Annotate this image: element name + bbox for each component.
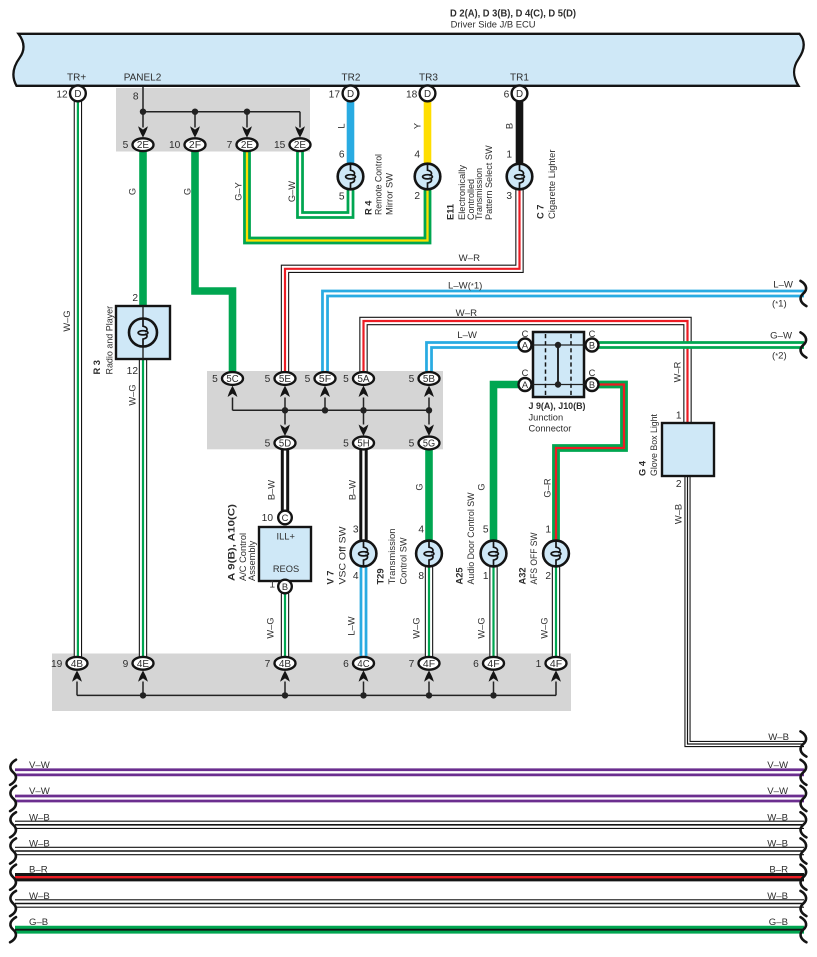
svg-text:B: B (282, 582, 288, 592)
svg-text:3: 3 (353, 525, 359, 536)
PANEL2 distribution (142, 87, 144, 112)
svg-text:C: C (589, 329, 596, 339)
svg-text:W–G: W–G (62, 310, 72, 331)
svg-text:12: 12 (127, 366, 139, 377)
svg-text:2: 2 (545, 571, 551, 582)
svg-text:G: G (128, 188, 138, 195)
wire W-G A25 pin1 to 4F (489, 566, 497, 657)
svg-text:G: G (183, 188, 193, 195)
svg-text:W–G: W–G (412, 617, 422, 638)
bulb A32 AFS off SW (543, 541, 569, 567)
svg-text:5: 5 (123, 140, 129, 151)
pin AC pin B (278, 580, 292, 594)
wire W-G A32 pin2 to 4F (552, 566, 560, 657)
wire W-B glove box to right edge (688, 476, 805, 744)
svg-text:1: 1 (483, 571, 489, 582)
bulb inside R3 (129, 319, 157, 347)
connector 5B (419, 372, 440, 385)
svg-text:Transmission: Transmission (387, 529, 397, 585)
svg-text:(*1): (*1) (772, 299, 787, 310)
svg-text:Audio Door Control SW: Audio Door Control SW (466, 492, 476, 584)
svg-text:C: C (589, 368, 596, 378)
radio R3 box (116, 306, 170, 359)
wire G junction A to A25 pin5 (494, 385, 519, 542)
pin junction B top (586, 339, 599, 352)
bottom block distribution (77, 694, 556, 696)
svg-text:W–B: W–B (767, 891, 788, 902)
svg-text:W–B: W–B (674, 504, 684, 524)
svg-text:5B: 5B (423, 374, 436, 385)
connector 4E-9 (133, 657, 154, 670)
wire bus W–B 6 (15, 899, 804, 907)
svg-text:1: 1 (269, 580, 275, 591)
svg-text:4F: 4F (487, 659, 499, 670)
svg-text:5H: 5H (357, 439, 369, 450)
wire G-R junction B to A32 pin1 (556, 385, 624, 542)
svg-text:G: G (477, 483, 487, 490)
wire G-W junction B to right edge (598, 341, 804, 349)
wire bus W–B 3 (15, 821, 804, 829)
junction connector J9 J10 (533, 332, 584, 397)
connector 4B-19 (67, 657, 88, 670)
wire bus G–B 7 (15, 926, 804, 934)
svg-text:D: D (74, 89, 81, 100)
svg-text:Y: Y (413, 123, 423, 129)
svg-text:W–B: W–B (768, 732, 789, 743)
svg-text:G–Y: G–Y (233, 182, 243, 201)
svg-text:W–B: W–B (767, 812, 788, 823)
svg-text:4: 4 (418, 525, 424, 536)
svg-text:5: 5 (305, 374, 311, 385)
svg-text:Junction: Junction (529, 413, 564, 423)
svg-text:G–B: G–B (29, 917, 48, 928)
svg-text:5G: 5G (423, 439, 435, 450)
svg-text:2: 2 (676, 479, 682, 490)
svg-text:8: 8 (133, 92, 139, 103)
connector 2E-5 (133, 138, 154, 151)
svg-text:7: 7 (227, 140, 233, 151)
svg-text:B: B (589, 341, 595, 351)
connector 5D (275, 437, 296, 450)
svg-text:A32: A32 (518, 567, 528, 584)
svg-text:B–R: B–R (29, 865, 48, 876)
svg-text:V–W: V–W (29, 760, 51, 771)
bulb T29 transmission control SW (416, 541, 442, 567)
wire L-W V7 pin4 to 4C (360, 566, 368, 657)
svg-text:TR1: TR1 (510, 73, 529, 84)
svg-text:10: 10 (169, 140, 181, 151)
wire W-G R3 pin12 to 4E (139, 359, 147, 657)
pin ECU pin D (512, 86, 528, 102)
svg-text:C 7: C 7 (536, 205, 546, 219)
svg-text:5: 5 (409, 374, 415, 385)
svg-text:Assembly: Assembly (247, 540, 257, 581)
middle block distribution (233, 409, 430, 411)
svg-text:6: 6 (343, 659, 349, 670)
svg-text:W–G: W–G (540, 617, 550, 638)
svg-text:5: 5 (343, 439, 349, 450)
svg-text:1: 1 (506, 149, 512, 160)
svg-text:Control SW: Control SW (399, 537, 409, 584)
svg-text:Mirror SW: Mirror SW (385, 173, 395, 215)
svg-text:W–G: W–G (477, 617, 487, 638)
svg-text:TR2: TR2 (342, 73, 361, 84)
svg-text:5: 5 (483, 525, 489, 536)
svg-text:Radio and Player: Radio and Player (105, 306, 115, 375)
connector 5A (353, 372, 374, 385)
svg-text:4F: 4F (550, 659, 562, 670)
svg-text:V–W: V–W (767, 786, 789, 797)
svg-text:W–B: W–B (29, 812, 50, 823)
svg-text:AFS OFF SW: AFS OFF SW (529, 532, 539, 584)
svg-text:T29: T29 (376, 568, 386, 584)
svg-text:18: 18 (406, 89, 418, 100)
connector 4F-1 (546, 657, 567, 670)
svg-text:19: 19 (51, 659, 63, 670)
wire bus V–W 1 (15, 768, 804, 776)
svg-text:G: G (415, 483, 425, 490)
svg-text:D: D (424, 89, 431, 100)
svg-text:17: 17 (329, 89, 341, 100)
connector 2E-7 (237, 138, 258, 151)
wire L-W 5B to junction A (429, 345, 519, 372)
svg-text:A: A (522, 380, 529, 390)
connector 5H (353, 437, 374, 450)
svg-text:A 9(B), A10(C): A 9(B), A10(C) (227, 504, 237, 581)
svg-text:W–R: W–R (459, 253, 480, 264)
svg-text:5: 5 (265, 439, 271, 450)
wire W-R C7 pin3 to 5E (285, 189, 520, 372)
wire B TR1 to C7 pin1 (516, 101, 524, 165)
svg-text:G–B: G–B (769, 917, 788, 928)
svg-text:B–W: B–W (348, 480, 358, 500)
wire B-W 5D to AC pin10 (281, 450, 289, 511)
svg-text:L–W(*1): L–W(*1) (448, 281, 482, 292)
wire G 2E5 to R3 pin2 (139, 152, 147, 307)
svg-text:1: 1 (676, 411, 682, 422)
svg-text:1: 1 (545, 525, 551, 536)
svg-text:Remote Control: Remote Control (374, 154, 384, 215)
bottom ground block (52, 654, 571, 712)
svg-text:W–R: W–R (673, 361, 683, 382)
wire W-G TR+ to 4B (74, 101, 82, 657)
wire W-G AC pin1 to 4B (281, 594, 289, 657)
svg-text:5: 5 (339, 192, 345, 203)
wire G 2F to 5C (195, 152, 233, 372)
svg-text:TR+: TR+ (67, 73, 86, 84)
svg-text:D: D (516, 89, 523, 100)
svg-text:2E: 2E (294, 140, 307, 151)
svg-text:10: 10 (262, 513, 274, 524)
wire L TR2 to R4 pin6 (347, 101, 355, 165)
svg-text:4E: 4E (137, 659, 150, 670)
svg-text:L: L (337, 123, 347, 128)
svg-text:5: 5 (409, 439, 415, 450)
pin junction A bottom (519, 378, 532, 391)
svg-text:2F: 2F (189, 140, 201, 151)
connector 5F (315, 372, 336, 385)
pin ECU pin D (343, 86, 359, 102)
wire G-Y 2E7 to E11 pin2 (247, 152, 428, 241)
pin junction B bottom (586, 378, 599, 391)
wire W-R 5A to glove box light (364, 321, 688, 424)
svg-text:5: 5 (265, 374, 271, 385)
svg-text:TR3: TR3 (419, 73, 438, 84)
svg-text:5: 5 (343, 374, 349, 385)
svg-text:Transmission: Transmission (474, 168, 484, 220)
connector 4B-7 (275, 657, 296, 670)
svg-text:4C: 4C (357, 659, 369, 670)
svg-text:4: 4 (353, 571, 359, 582)
svg-text:W–B: W–B (767, 839, 788, 850)
svg-text:9: 9 (123, 659, 129, 670)
svg-text:Connector: Connector (529, 424, 572, 434)
svg-text:W–B: W–B (29, 891, 50, 902)
wire bus V–W 2 (15, 795, 804, 803)
svg-text:5E: 5E (279, 374, 292, 385)
svg-text:Pattern Select SW: Pattern Select SW (484, 145, 494, 220)
svg-text:V–W: V–W (767, 760, 789, 771)
svg-text:15: 15 (274, 140, 286, 151)
svg-text:6: 6 (504, 89, 510, 100)
svg-text:W–R: W–R (456, 308, 477, 319)
wire B-W 5H to V7 pin3 (359, 450, 367, 541)
svg-text:(*2): (*2) (772, 351, 787, 362)
svg-text:12: 12 (56, 89, 68, 100)
pin junction A top (519, 339, 532, 352)
svg-text:W–G: W–G (266, 617, 276, 638)
svg-text:2: 2 (132, 293, 138, 304)
svg-text:2E: 2E (137, 140, 150, 151)
bulb R4 remote control mirror SW (338, 164, 364, 190)
svg-text:B: B (589, 380, 595, 390)
wire bus B–R 5 (15, 873, 804, 881)
svg-text:Glove Box Light: Glove Box Light (649, 414, 659, 476)
svg-text:G–R: G–R (543, 478, 553, 497)
bulb C7 cigarette lighter (507, 164, 533, 190)
wire Y TR3 to E11 pin4 (424, 101, 432, 165)
svg-text:ILL+: ILL+ (277, 532, 295, 542)
svg-text:2: 2 (414, 191, 420, 202)
svg-text:5F: 5F (319, 374, 331, 385)
svg-text:4F: 4F (423, 659, 435, 670)
wire L-W 5F to right edge (325, 294, 804, 372)
svg-text:2E: 2E (241, 140, 254, 151)
bulb E11 pattern select SW (415, 164, 441, 190)
svg-text:L–W: L–W (457, 330, 478, 341)
svg-text:G–W: G–W (770, 331, 793, 342)
wire W-G T29 pin8 to 4F (425, 566, 433, 657)
connector 4F-7 (419, 657, 440, 670)
svg-text:B–W: B–W (267, 480, 277, 500)
pin ECU pin D (420, 86, 436, 102)
Driver Side J/B ECU band (13, 34, 803, 86)
svg-text:Cigarette Lighter: Cigarette Lighter (547, 150, 557, 220)
glove box light G4 (662, 423, 714, 476)
svg-text:5A: 5A (357, 374, 370, 385)
svg-text:A25: A25 (455, 567, 465, 584)
svg-text:5D: 5D (279, 439, 291, 450)
svg-text:B: B (505, 123, 515, 129)
svg-text:7: 7 (265, 659, 271, 670)
svg-text:A: A (522, 341, 529, 351)
svg-text:V 7: V 7 (326, 571, 336, 585)
svg-text:4: 4 (414, 149, 420, 160)
svg-text:R 4: R 4 (364, 200, 374, 215)
svg-text:VSC Off SW: VSC Off SW (338, 526, 348, 584)
wire G-W 2E15 to R4 pin5 (300, 152, 351, 216)
svg-text:7: 7 (409, 659, 415, 670)
svg-text:4B: 4B (71, 659, 84, 670)
bulb V7 VSC off SW (351, 541, 377, 567)
svg-text:R 3: R 3 (92, 360, 102, 374)
svg-text:Driver Side J/B ECU: Driver Side J/B ECU (451, 20, 536, 30)
svg-text:6: 6 (339, 149, 345, 160)
svg-text:D: D (347, 89, 354, 100)
ECU internal block PANEL2 (116, 88, 310, 152)
connector 5E (275, 372, 296, 385)
svg-text:E11: E11 (445, 204, 455, 220)
connector 4C-6 (353, 657, 374, 670)
svg-text:C: C (522, 329, 529, 339)
svg-text:G–W: G–W (287, 181, 297, 202)
svg-text:V–W: V–W (29, 786, 51, 797)
svg-text:4B: 4B (279, 659, 292, 670)
svg-text:J 9(A), J10(B): J 9(A), J10(B) (529, 401, 586, 412)
connector 4F-6 (483, 657, 504, 670)
svg-text:1: 1 (536, 659, 542, 670)
svg-text:8: 8 (418, 571, 424, 582)
svg-text:C: C (522, 368, 529, 378)
svg-text:5C: 5C (226, 374, 238, 385)
svg-text:PANEL2: PANEL2 (124, 73, 162, 84)
svg-text:5: 5 (212, 374, 218, 385)
svg-text:D 2(A), D 3(B), D 4(C), D 5(D): D 2(A), D 3(B), D 4(C), D 5(D) (450, 9, 576, 20)
connector 2E-15 (290, 138, 311, 151)
svg-text:B–R: B–R (769, 865, 788, 876)
svg-text:L–W: L–W (347, 616, 357, 635)
pin ECU pin D (70, 86, 86, 102)
connector 5C (222, 372, 243, 385)
svg-text:3: 3 (506, 191, 512, 202)
wire G 5G to T29 pin4 (425, 450, 433, 541)
svg-text:L–W: L–W (773, 280, 794, 291)
middle connector block (207, 371, 443, 449)
svg-text:G 4: G 4 (638, 460, 648, 476)
bulb A25 audio door control SW (481, 541, 507, 567)
svg-text:W–G: W–G (128, 384, 138, 405)
svg-text:W–B: W–B (29, 839, 50, 850)
connector 2F-10 (185, 138, 206, 151)
pin AC pin C (278, 511, 292, 525)
wire bus W–B 4 (15, 847, 804, 855)
svg-text:C: C (282, 513, 289, 523)
svg-text:REOS: REOS (273, 564, 299, 574)
svg-text:6: 6 (473, 659, 479, 670)
connector 5G (419, 437, 440, 450)
